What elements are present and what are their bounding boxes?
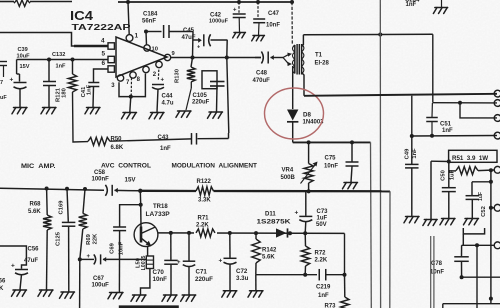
capacitor C72 plus <box>219 258 223 265</box>
svg-text:1nF: 1nF <box>160 146 171 152</box>
svg-text:VR4: VR4 <box>282 168 294 174</box>
svg-text:C184: C184 <box>143 11 158 17</box>
wire pin box to ground <box>130 97 131 112</box>
ground C69 <box>108 293 123 299</box>
label C49 value <box>412 148 418 159</box>
ground x431 <box>423 220 437 226</box>
node R51 bottom-left <box>447 160 451 164</box>
svg-text:+: + <box>177 260 181 266</box>
svg-text:5: 5 <box>102 51 106 58</box>
label L50 <box>136 258 142 268</box>
svg-text:TA7222AP: TA7222AP <box>72 22 131 32</box>
label VR4 value <box>281 175 296 181</box>
wire R72 to row274 <box>304 266 306 275</box>
label R121 value <box>62 88 68 98</box>
svg-text:47uF: 47uF <box>24 258 38 264</box>
wire L50 to ground <box>141 269 150 295</box>
svg-text:56nF: 56nF <box>142 18 156 24</box>
capacitor C41 <box>88 83 99 87</box>
ground C70 <box>162 295 177 301</box>
node D11 out <box>288 231 292 235</box>
label R71 value <box>196 222 209 228</box>
svg-text:1nF: 1nF <box>56 64 67 70</box>
capacitor C71 plus <box>177 260 181 266</box>
svg-text:1S2875K: 1S2875K <box>257 220 292 226</box>
svg-text:C45: C45 <box>183 28 195 34</box>
capacitor C67 wire left <box>80 258 94 260</box>
connector circle P6 <box>494 204 500 211</box>
svg-text:10nF: 10nF <box>430 270 444 276</box>
pin label 1 <box>135 33 139 40</box>
transistor TR18 circle <box>134 223 158 247</box>
capacitor C39 plus <box>10 77 14 84</box>
resistor R122 <box>196 187 214 195</box>
svg-text:+: + <box>219 258 223 265</box>
svg-text:EI-28: EI-28 <box>315 61 330 67</box>
capacitor C42 <box>233 14 246 18</box>
wire C44 to ground <box>157 89 158 112</box>
svg-text:+: + <box>11 263 15 270</box>
capacitor C67 plus <box>87 254 91 260</box>
svg-text:10nF: 10nF <box>324 164 338 170</box>
wire to P6 <box>491 207 494 209</box>
svg-text:15V: 15V <box>125 177 137 184</box>
bottom-left cropped banner <box>119 305 179 308</box>
label C51 <box>440 122 452 128</box>
wire C42 to ground <box>238 18 240 32</box>
svg-text:MODULATION ALIGNMENT: MODULATION ALIGNMENT <box>172 163 258 170</box>
svg-text:C72: C72 <box>236 268 248 275</box>
svg-text:C47: C47 <box>268 11 280 17</box>
ground C71 <box>181 295 196 301</box>
label TA7222AP <box>72 22 131 32</box>
svg-text:3.3u: 3.3u <box>236 275 249 282</box>
wire C184 down to apex node <box>192 32 195 58</box>
wire top rail <box>118 1 292 3</box>
wire x380 vertical full <box>379 0 381 308</box>
capacitor C56 feed <box>0 246 26 269</box>
label R122 <box>197 179 212 185</box>
svg-text:C75: C75 <box>325 156 337 162</box>
node C70 <box>169 231 173 235</box>
ground C169 <box>60 292 75 298</box>
annotation red circle <box>265 88 324 139</box>
capacitor C72 lead <box>229 233 231 258</box>
svg-text:+: + <box>161 78 165 84</box>
svg-text:C44: C44 <box>162 94 174 100</box>
label C132 value <box>56 64 67 70</box>
wire rail to T1 primary <box>291 2 293 45</box>
diode D8 <box>287 110 298 122</box>
svg-text:+: + <box>295 210 299 217</box>
wire y245 row <box>462 244 494 246</box>
ground C75 <box>343 183 358 189</box>
svg-text:IC4: IC4 <box>70 9 93 23</box>
label C51 value <box>442 128 453 134</box>
resistor R130 lead <box>191 58 193 68</box>
capacitor C50 lead2 <box>448 192 450 218</box>
capacitor C75 lead <box>351 142 353 161</box>
node y102 branch <box>458 101 462 105</box>
pin 3 circle <box>117 75 123 81</box>
capacitor C67 <box>94 254 106 264</box>
resistor R71 <box>194 228 217 238</box>
op-amp IC4 triangle <box>116 37 167 77</box>
wire T1 secondary top <box>302 35 304 47</box>
svg-text:1nF: 1nF <box>318 293 329 299</box>
label C132 <box>52 52 65 58</box>
pin label 3 <box>111 83 115 89</box>
label C39 value <box>17 54 31 60</box>
svg-text:C42: C42 <box>210 12 222 18</box>
transformer T1 secondary winding <box>302 44 304 75</box>
diode D11 <box>276 228 288 237</box>
label C71 <box>196 268 208 275</box>
svg-text:C67: C67 <box>93 276 105 282</box>
wire base tap to C69 <box>120 205 141 227</box>
svg-text:4.7u: 4.7u <box>162 101 174 107</box>
capacitor C72 <box>224 258 237 264</box>
wire R72 bypass riser <box>344 233 346 274</box>
svg-text:2.2K: 2.2K <box>196 222 209 228</box>
capacitor C44 <box>152 85 164 90</box>
label C184 <box>143 11 158 17</box>
ground R130 <box>176 111 191 117</box>
wire C219 right <box>326 274 345 276</box>
capacitor C48 <box>261 52 273 64</box>
wire R51 node left <box>431 160 449 162</box>
connector circle P1 <box>494 90 500 97</box>
label C50 value <box>450 169 456 180</box>
svg-text:220uF: 220uF <box>195 276 213 283</box>
svg-text:R68: R68 <box>30 202 42 208</box>
svg-text:100uF: 100uF <box>92 282 110 288</box>
svg-text:C70: C70 <box>153 269 165 276</box>
svg-text:R142: R142 <box>262 248 277 254</box>
wire emitter to L50 <box>147 246 149 256</box>
capacitor C56 plus <box>11 263 15 270</box>
diode D8 anode wire <box>292 66 294 109</box>
svg-text:C50: C50 <box>441 170 447 181</box>
wire y34 T1 to right <box>303 33 432 35</box>
node y245 <box>475 243 479 247</box>
node R72 bottom <box>303 273 307 277</box>
node C72 <box>228 231 232 235</box>
svg-text:R50: R50 <box>111 137 123 143</box>
pin label 8 <box>137 77 141 83</box>
node apex R130 <box>191 56 195 60</box>
capacitor C73 lead <box>305 191 307 216</box>
resistor R68 lead <box>46 189 49 216</box>
svg-text:100nF: 100nF <box>92 177 110 183</box>
wire node row y59 <box>17 59 108 61</box>
capacitor C49 lead2 <box>411 168 413 216</box>
label T1 <box>315 53 323 59</box>
capacitor C75 lead2 <box>351 167 352 183</box>
svg-text:10nF: 10nF <box>266 23 280 29</box>
svg-text:10: 10 <box>152 47 158 53</box>
svg-text:1nF: 1nF <box>442 128 453 134</box>
node bus VR4 <box>307 189 311 193</box>
wire x371 vertical <box>370 142 373 308</box>
pin label 10 <box>152 47 158 53</box>
svg-text:15V: 15V <box>20 64 30 70</box>
wire pin2 to C44 <box>157 70 160 81</box>
wire bus right <box>214 190 391 193</box>
label R72 <box>315 251 327 257</box>
wire u-link <box>463 228 484 234</box>
node C78 bottom <box>460 275 464 279</box>
label C49 <box>404 148 410 159</box>
label R122 value <box>198 198 211 204</box>
svg-text:D11: D11 <box>265 212 276 218</box>
wire C41 to ground <box>92 87 95 107</box>
wire apex row y57 <box>171 57 261 59</box>
left-edge text fragment 2 <box>0 95 7 101</box>
wire 15V to base <box>139 191 141 205</box>
potentiometer VR4 arrow <box>301 162 318 184</box>
capacitor C72 lead2 <box>229 264 231 291</box>
ground C72 <box>222 291 237 297</box>
label R69 value <box>92 233 98 244</box>
svg-text:C78: C78 <box>431 261 443 267</box>
capacitor C70 lead <box>170 233 172 260</box>
svg-text:+: + <box>87 254 91 260</box>
label C70 <box>153 269 165 276</box>
pin 4 square <box>108 43 114 49</box>
label C43 value <box>160 146 171 152</box>
capacitor C71 lead <box>188 233 190 261</box>
svg-text:500B: 500B <box>281 175 296 181</box>
svg-text:1: 1 <box>135 33 139 40</box>
resistor R52 lead <box>449 170 456 172</box>
capacitor C184 wire left <box>146 31 162 33</box>
label C69 <box>110 242 116 253</box>
capacitor C39 <box>14 83 27 89</box>
label C67 value <box>92 282 110 288</box>
inductor L50 <box>146 256 153 269</box>
resistor R50 <box>88 137 110 145</box>
wire mic line <box>0 188 104 190</box>
ground C132 <box>41 108 56 114</box>
wire R130 to ground <box>186 82 191 110</box>
wire T1 primary fork upper <box>283 53 292 58</box>
wire x431 to ground <box>430 161 432 219</box>
wire pin6 to C41 <box>94 69 109 82</box>
svg-text:C39: C39 <box>18 47 28 53</box>
svg-text:5.6K: 5.6K <box>28 209 41 215</box>
svg-text:C58: C58 <box>94 170 106 176</box>
node x490 y298 <box>489 297 493 301</box>
node C75 top <box>350 140 354 144</box>
label C70 value <box>153 276 168 283</box>
label TR18 type <box>146 211 171 218</box>
label MIC AMP <box>21 163 56 170</box>
capacitor C105 <box>210 82 225 87</box>
label top-right value <box>406 2 417 8</box>
svg-text:C105: C105 <box>193 93 208 99</box>
label C69 value <box>118 241 124 255</box>
svg-text:1nF: 1nF <box>87 84 93 95</box>
potentiometer VR4 lead2 <box>308 183 310 191</box>
label C43 <box>158 135 170 141</box>
ground R68 <box>38 290 53 296</box>
label C39 <box>18 47 28 53</box>
ground top-right <box>433 0 447 13</box>
label C52 <box>481 206 487 217</box>
capacitor C73 plus <box>295 210 299 217</box>
wire R142 to row274 <box>255 263 257 275</box>
label C184 value <box>142 18 156 24</box>
wire y303 drop <box>442 304 444 308</box>
svg-text:7: 7 <box>0 80 3 86</box>
svg-text:C169: C169 <box>59 200 65 215</box>
svg-text:1nF: 1nF <box>412 148 418 159</box>
label D8 value <box>303 120 325 126</box>
wire C45 to apex row <box>226 40 228 58</box>
connector circle P7 <box>494 242 500 249</box>
wire C52 branch <box>472 181 491 183</box>
wire pin10 to C184 node <box>145 32 148 45</box>
svg-text:AVC CONTROL: AVC CONTROL <box>101 163 151 170</box>
resistor R52 <box>456 167 478 175</box>
node mic C169 <box>65 187 69 191</box>
wire R69 node down <box>79 259 81 308</box>
svg-text:47uF: 47uF <box>182 35 196 41</box>
capacitor C71 <box>183 261 196 266</box>
label C78 <box>431 261 443 267</box>
svg-text:50V: 50V <box>316 222 327 228</box>
node C73/R72 <box>303 231 307 235</box>
pin label 5 <box>102 51 106 58</box>
label C73 voltage <box>316 222 327 228</box>
wire C48 to T1 <box>271 57 284 59</box>
wire gray x430 lower <box>430 236 432 308</box>
ground C105 <box>208 112 223 118</box>
svg-text:D8: D8 <box>303 112 311 119</box>
wire C48 in <box>255 57 261 59</box>
ground C52 <box>464 219 479 225</box>
label C58 <box>94 170 106 176</box>
svg-text:C49: C49 <box>404 148 410 159</box>
ground C47 <box>252 36 265 41</box>
label R71 <box>198 216 210 222</box>
label R73 <box>325 303 337 308</box>
svg-text:22K: 22K <box>92 233 98 244</box>
wire x390 vertical <box>389 191 391 308</box>
svg-text:3.3K: 3.3K <box>198 198 211 204</box>
capacitor C51 <box>426 118 438 122</box>
label C105 <box>193 93 208 99</box>
capacitor C105 box <box>202 71 217 89</box>
svg-text:6: 6 <box>102 60 106 67</box>
label C48 <box>256 71 268 77</box>
wire R50 right <box>110 139 191 141</box>
node mic R68 <box>45 187 49 191</box>
wire x412 drop <box>411 96 413 136</box>
svg-text:R122: R122 <box>197 179 212 185</box>
svg-text:1000uF: 1000uF <box>209 19 229 25</box>
capacitor C51 lead <box>431 103 433 136</box>
pin label 4 <box>101 38 105 45</box>
wire C43 row <box>198 133 229 139</box>
wire R69 to C67 node <box>80 229 83 259</box>
svg-text:470uF: 470uF <box>253 78 271 84</box>
capacitor C78 <box>454 257 469 262</box>
wire R142 ground lead <box>255 275 257 291</box>
wire pin1 to rail <box>128 2 129 35</box>
label C169 <box>59 200 65 215</box>
capacitor C45 wire right <box>211 39 228 41</box>
wire T1 secondary bottom <box>302 73 304 96</box>
node rail C42 <box>237 0 241 4</box>
wire C169 to ground <box>68 227 70 292</box>
svg-text:10nF: 10nF <box>153 276 168 283</box>
resistor R51 box <box>449 150 497 162</box>
svg-text:C71: C71 <box>196 268 208 275</box>
svg-text:R72: R72 <box>315 251 327 257</box>
capacitor C73 lead2 <box>304 221 307 233</box>
wire riser C43 vertical <box>227 58 229 134</box>
capacitor C184 wire right <box>169 31 193 33</box>
capacitor C184 <box>164 25 169 38</box>
wire y102 row <box>433 102 497 104</box>
label C71 value <box>195 276 213 283</box>
connector circle P5 <box>494 166 500 173</box>
node junction R121 <box>71 58 75 62</box>
capacitor C52 lead2 <box>471 200 473 218</box>
capacitor C50 <box>442 188 456 192</box>
ground C50 <box>440 219 455 225</box>
svg-text:C254: C254 <box>405 0 420 3</box>
left-edge text fragment 1 <box>0 80 3 86</box>
wire x433 vertical <box>432 34 434 102</box>
svg-text:6.8K: 6.8K <box>111 145 124 151</box>
resistor R73 lead <box>344 275 346 297</box>
svg-text:C73: C73 <box>317 209 329 215</box>
label R50 <box>111 137 123 143</box>
svg-text:C219: C219 <box>316 285 331 291</box>
capacitor C56 <box>15 270 28 275</box>
capacitor C69 <box>113 227 126 231</box>
label C47 value <box>266 23 280 29</box>
capacitor C132 <box>43 82 56 86</box>
label C56 <box>28 247 40 253</box>
wire collector row <box>158 232 345 235</box>
pin label 6 <box>102 60 106 67</box>
node VR4 top <box>307 140 311 144</box>
label C41 <box>81 86 87 97</box>
capacitor C70 lead2 <box>170 265 172 295</box>
svg-text:5.6K: 5.6K <box>262 255 275 261</box>
label D11 <box>265 212 276 218</box>
node C71 <box>187 231 191 235</box>
node C184 junction <box>144 30 148 34</box>
label C56 value <box>24 258 38 264</box>
node apex C43 riser <box>225 56 229 60</box>
wire pin4 stub thick <box>74 45 108 47</box>
svg-text:10uF: 10uF <box>17 54 31 60</box>
node rail T1 feed <box>290 0 294 4</box>
label R142 <box>262 248 277 254</box>
label C47 <box>268 11 280 17</box>
svg-text:T1: T1 <box>315 53 323 59</box>
svg-text:R71: R71 <box>198 216 210 222</box>
capacitor C73 <box>299 216 312 221</box>
wire u-link drop <box>462 234 464 245</box>
svg-text:C51: C51 <box>440 122 452 128</box>
transistor TR18 collector <box>141 227 155 234</box>
